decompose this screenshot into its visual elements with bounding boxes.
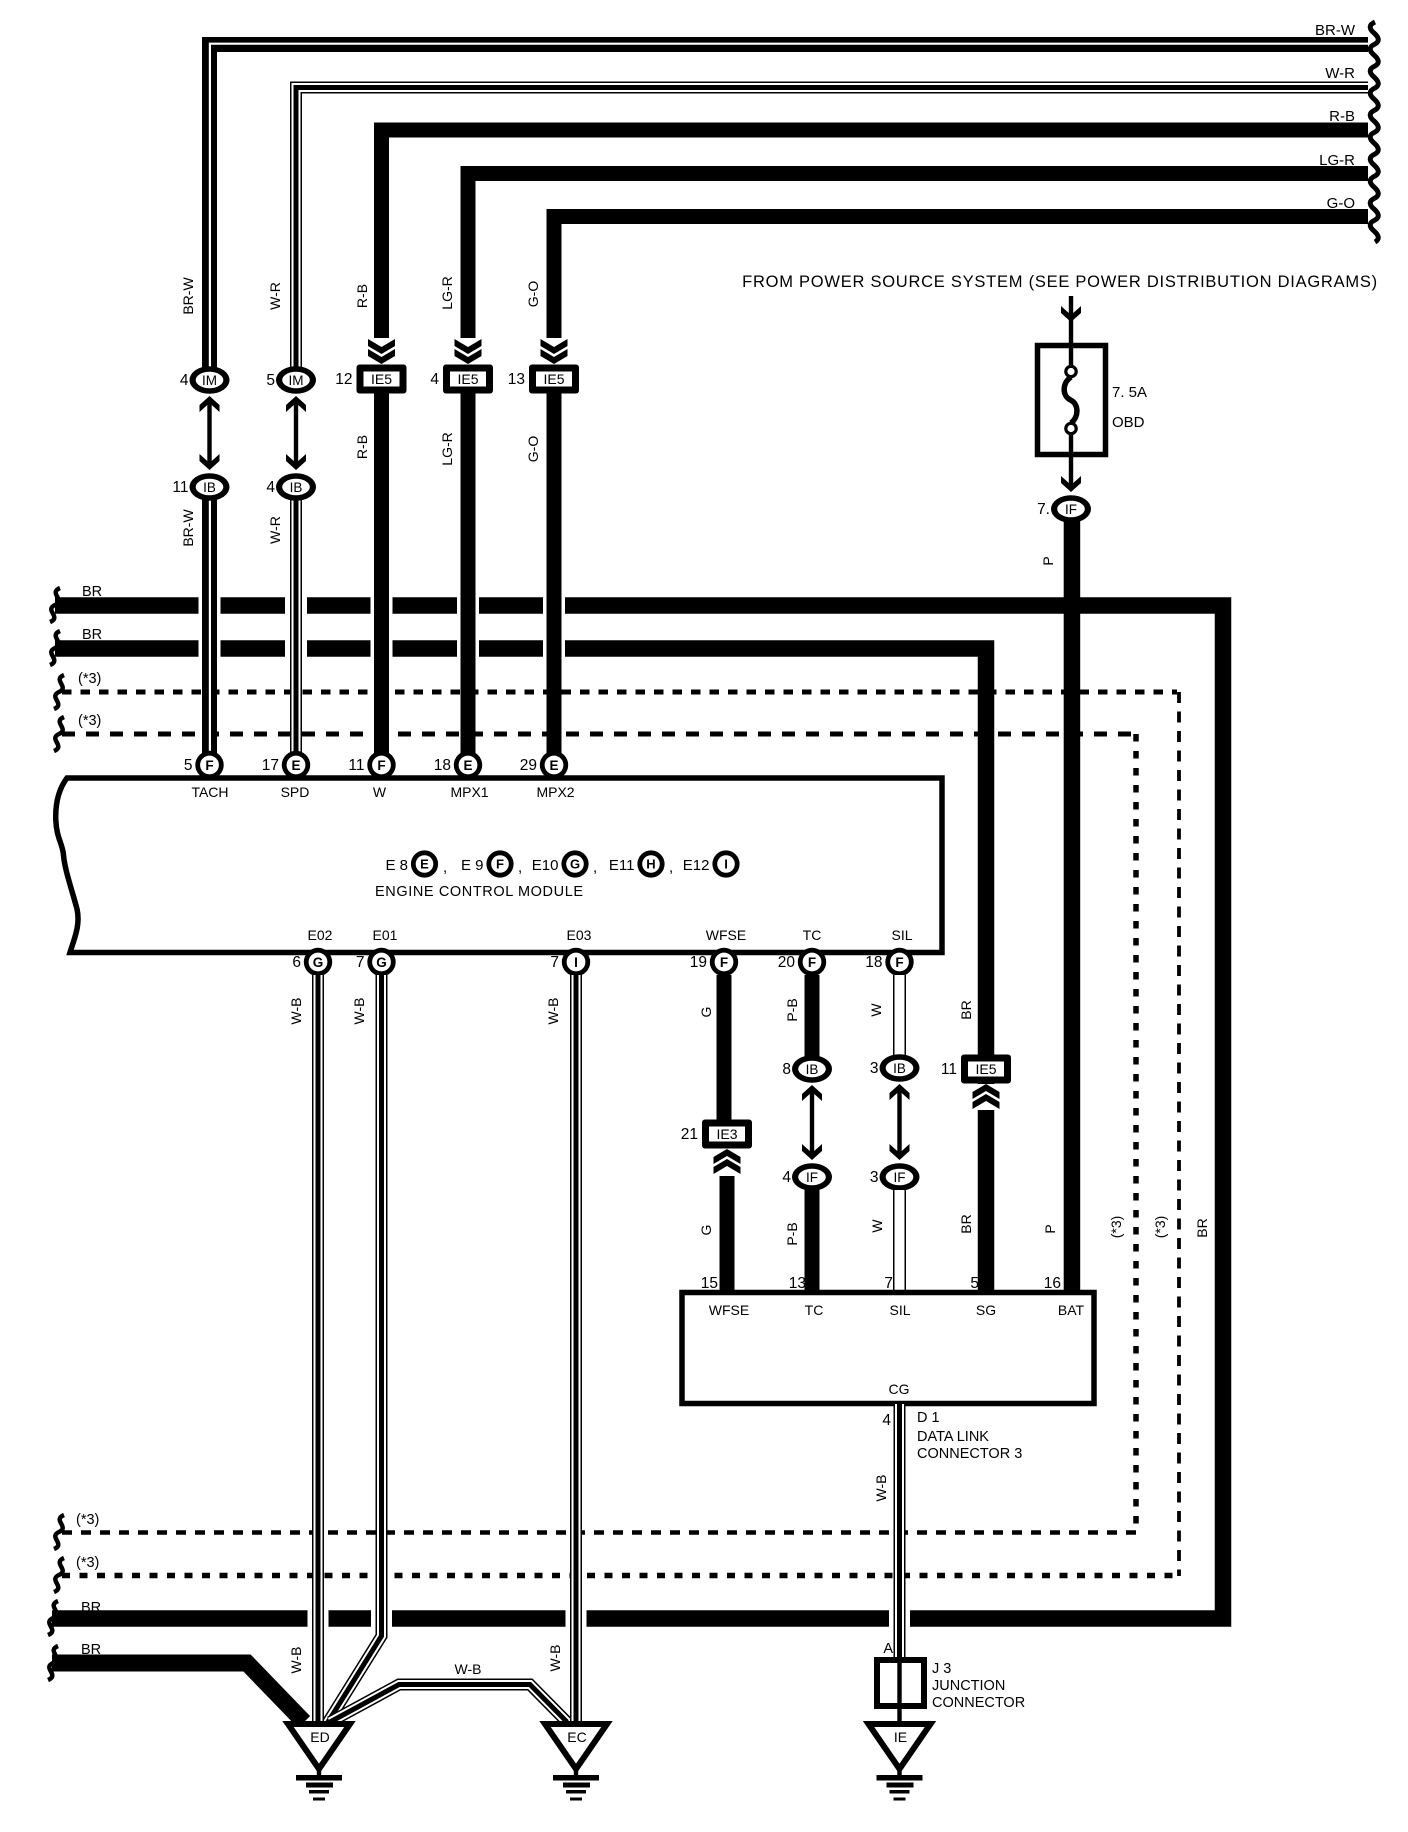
svg-text:BR-W: BR-W [180,277,196,315]
svg-text:FROM POWER SOURCE SYSTEM (SEE: FROM POWER SOURCE SYSTEM (SEE POWER DIST… [742,273,1378,291]
svg-text:18: 18 [434,757,451,774]
dashed marker line (*3) inner top [62,732,1134,737]
svg-text:F: F [895,955,903,970]
svg-text:G-O: G-O [1327,195,1355,212]
svg-text:WFSE: WFSE [706,927,746,943]
svg-text:SIL: SIL [891,927,912,943]
svg-text:18: 18 [865,954,882,971]
arrow into connector 12 IE5 [368,338,396,364]
svg-text:F: F [377,758,385,773]
wire LG-R (L-shape) [468,174,1368,357]
svg-text:F: F [808,955,816,970]
arrow into connector 4 IE5 [454,338,482,364]
ground ED [288,1724,350,1801]
svg-text:E01: E01 [373,927,398,943]
connector 11 IE5 (SG) [941,1055,1011,1084]
svg-text:13: 13 [508,371,525,388]
svg-text:E03: E03 [567,927,592,943]
break mark BR bottom 2 [48,1646,58,1680]
data link connector 3 box [682,1293,1094,1404]
wire BR-W (L-shape with white stripe) [210,44,1369,368]
svg-text:E02: E02 [308,927,333,943]
wire R-B from IE5 to ECM W pin [374,391,389,753]
pin 18 E (MPX1) [434,751,482,779]
svg-text:E: E [420,857,429,872]
svg-text:ED: ED [310,1729,329,1745]
svg-text:7: 7 [356,954,365,971]
wire BR-W from IB to ECM TACH pin [202,498,217,753]
svg-text:W-B: W-B [873,1475,889,1502]
svg-text:W-R: W-R [1325,65,1355,82]
arrow link IM to IB (col 2) [286,396,306,470]
svg-text:BAT: BAT [1058,1302,1085,1318]
svg-text:TACH: TACH [191,784,228,800]
break mark BR bottom 1 [48,1601,58,1635]
arrow into IF connector [1061,476,1081,492]
svg-text:CG: CG [889,1381,910,1397]
wire W-R from IB to ECM SPD pin [290,498,302,753]
svg-text:W-R: W-R [267,282,283,310]
svg-text:IB: IB [203,480,216,495]
svg-text:MPX1: MPX1 [450,784,488,800]
svg-text:H: H [646,857,655,872]
connector 4 IB [266,473,316,501]
svg-text:G: G [570,857,580,872]
connector 21 IE3 (WFSE) [681,1120,752,1149]
svg-text:I: I [574,955,578,970]
svg-text:J 3: J 3 [932,1661,951,1677]
wire P-B from IF to DLC3 TC [805,1190,820,1296]
svg-text:11: 11 [348,757,364,774]
svg-text:LG-R: LG-R [439,432,455,465]
pin 5 F (TACH) [184,751,224,779]
dashed marker line (*3) inner vertical [1133,734,1139,1533]
svg-text:W-B: W-B [288,998,304,1025]
svg-text:4: 4 [882,1412,891,1429]
svg-text:P-B: P-B [784,1222,800,1245]
svg-text:E12: E12 [683,857,710,874]
svg-text:7. 5A: 7. 5A [1112,384,1147,401]
svg-text:E10: E10 [532,857,559,874]
svg-text:E11: E11 [609,857,635,874]
pin 29 E (MPX2) [520,751,568,779]
svg-text:4: 4 [180,372,189,389]
svg-text:IE5: IE5 [457,371,478,387]
wire LG-R from IE5 to ECM MPX1 pin [461,391,476,753]
svg-text:G: G [698,1225,714,1236]
svg-text:11: 11 [172,479,188,496]
wire G from IE3 to DLC3 WFSE [720,1176,735,1296]
svg-text:R-B: R-B [354,435,370,459]
svg-text:BR: BR [958,1214,974,1233]
wire from power source into fuse [1069,296,1073,368]
svg-text:W-B: W-B [351,998,367,1025]
svg-text:F: F [205,758,213,773]
svg-text:W: W [869,1219,885,1233]
svg-text:F: F [496,857,504,872]
svg-text:P: P [1042,1224,1058,1233]
svg-text:TC: TC [803,927,822,943]
svg-text:BR-W: BR-W [180,509,196,547]
svg-text:F: F [720,955,728,970]
svg-text:(*3): (*3) [1152,1216,1168,1239]
svg-text:(*3): (*3) [1108,1216,1124,1239]
connector 7 IF (fuse output) [1037,495,1091,523]
pin 11 F (W) [348,751,395,779]
svg-text:LG-R: LG-R [1319,152,1355,169]
svg-text:E: E [463,758,472,773]
svg-text:IB: IB [290,480,303,495]
break mark (*3) line 3 [54,1515,64,1549]
pin 6 G (E02) [292,948,332,976]
svg-text:R-B: R-B [354,284,370,308]
wire W-B from E02 to ground ED [312,975,324,1722]
svg-text:IF: IF [894,1170,906,1185]
svg-text:4: 4 [266,479,275,496]
break mark (*3) line 4 [54,1558,64,1592]
connector 8 IB (TC) [782,1055,832,1083]
svg-text:17: 17 [262,757,279,774]
wire P from IF to DLC3 BAT pin [1064,521,1081,1296]
connector 11 IB [172,473,229,501]
svg-text:20: 20 [778,954,796,971]
pin 17 E (SPD) [262,751,310,779]
engine control module box [56,778,942,953]
svg-text:12: 12 [335,371,352,388]
svg-text:G: G [313,955,324,970]
svg-text:29: 29 [520,757,537,774]
arrow into connector 13 IE5 [540,338,568,364]
svg-text:E: E [291,758,300,773]
svg-text:5: 5 [184,757,193,774]
wire SIL W upper [893,975,906,1058]
svg-text:(*3): (*3) [76,1512,99,1528]
wire BR bottom 2 diagonal into ground ED [52,1663,304,1722]
svg-text:SG: SG [976,1302,996,1318]
connector 4 IF (TC) [782,1163,832,1191]
svg-text:IB: IB [893,1061,906,1076]
wire BR bus 2 (top) down to DLC3 SG pin [55,649,986,1297]
svg-text:W: W [868,1003,884,1017]
svg-text:,: , [669,859,673,876]
svg-text:BR: BR [958,1000,974,1019]
svg-text:CONNECTOR 3: CONNECTOR 3 [917,1446,1022,1462]
break mark BR bus 1 [50,588,60,622]
svg-text:16: 16 [1044,1275,1061,1292]
pin 19 F (WFSE) [690,948,738,976]
svg-text:EC: EC [567,1729,586,1745]
arrow out of 21 IE3 [713,1149,741,1175]
svg-text:IE3: IE3 [716,1126,737,1142]
svg-text:DATA LINK: DATA LINK [917,1429,989,1445]
pin 20 F (TC) [778,948,826,976]
svg-text:G: G [698,1007,714,1018]
svg-text:4: 4 [430,371,439,388]
dashed marker line (*3) inner bottom [62,1530,1136,1535]
connector 12 IE5 [335,365,406,394]
wire W-B from E03 to ground EC [570,975,582,1722]
svg-text:D 1: D 1 [917,1410,940,1426]
torn-edge squiggle at right wire ends [1370,22,1378,242]
connector 3 IF (SIL) [870,1163,920,1191]
svg-text:CONNECTOR: CONNECTOR [932,1695,1025,1711]
svg-text:7: 7 [884,1275,893,1292]
svg-text:IE5: IE5 [975,1061,996,1077]
svg-text:JUNCTION: JUNCTION [932,1678,1005,1694]
svg-text:IM: IM [202,373,217,388]
svg-text:W: W [373,784,387,800]
svg-text:6: 6 [292,954,301,971]
svg-text:R-B: R-B [1329,108,1355,125]
wire W-B linking ED and EC grounds [330,1685,567,1723]
dashed marker line (*3) outer vertical [1177,692,1181,1576]
svg-text:IB: IB [806,1062,819,1077]
pin 18 F (SIL) [865,948,913,976]
break mark (*3) line 1 [54,675,64,709]
svg-text:IE5: IE5 [543,371,564,387]
svg-text:IM: IM [289,373,304,388]
break mark (*3) line 2 [54,717,64,751]
wire G from WFSE pin to IE3 [717,975,732,1124]
svg-text:7: 7 [550,954,559,971]
svg-text:4: 4 [782,1169,791,1186]
svg-text:8: 8 [782,1061,791,1078]
junction connector J3 [877,1660,924,1724]
svg-text:7.: 7. [1037,501,1050,518]
fuse 7.5A OBD [1038,346,1106,455]
wire G-O from IE5 to ECM MPX2 pin [547,391,562,753]
svg-text:SIL: SIL [889,1302,910,1318]
wire fuse to IF connector [1069,433,1073,489]
wire W-B from E01 to ground ED [328,975,382,1722]
svg-text:ENGINE CONTROL MODULE: ENGINE CONTROL MODULE [375,884,584,900]
svg-text:15: 15 [701,1275,718,1292]
svg-text:W-B: W-B [547,1645,563,1672]
svg-text:11: 11 [941,1061,957,1078]
connector 4 IM [180,366,230,394]
ECM internal connector list E8-E12 [385,850,739,877]
svg-text:,: , [518,859,522,876]
svg-text:G-O: G-O [525,281,541,308]
arrow into fuse [1061,306,1081,322]
svg-text:(*3): (*3) [78,713,101,729]
svg-text:MPX2: MPX2 [536,784,574,800]
dashed marker line (*3) outer top [62,690,1177,695]
connector 5 IM [266,366,316,394]
svg-text:E 9: E 9 [461,857,484,874]
svg-text:3: 3 [870,1169,879,1186]
svg-text:13: 13 [789,1275,806,1292]
svg-text:W-R: W-R [267,516,283,544]
wire W-B from DLC3 CG to junction J3 [894,1404,906,1664]
svg-text:BR: BR [81,1600,101,1616]
ground EC [545,1724,607,1801]
connector 13 IE5 [508,365,579,394]
svg-text:LG-R: LG-R [439,276,455,309]
svg-text:W-B: W-B [545,998,561,1025]
svg-text:BR-W: BR-W [1315,22,1356,39]
svg-text:(*3): (*3) [76,1555,99,1571]
svg-text:P-B: P-B [784,998,800,1021]
svg-text:IF: IF [1065,502,1077,517]
svg-text:BR: BR [1194,1218,1210,1237]
svg-text:IE5: IE5 [371,371,392,387]
arrow link IM to IB (col 1) [200,396,220,470]
svg-text:OBD: OBD [1112,414,1145,431]
svg-text:BR: BR [82,584,102,600]
svg-text:BR: BR [82,627,102,643]
svg-text:19: 19 [690,954,707,971]
svg-text:G: G [376,955,387,970]
svg-text:A: A [883,1641,893,1657]
connector 3 IB (SIL) [870,1054,920,1082]
svg-text:5: 5 [266,372,275,389]
connector 4 IE5 (second) [430,365,493,394]
svg-text:W-B: W-B [288,1647,304,1674]
dashed marker line (*3) outer bottom [62,1573,1179,1579]
svg-text:5: 5 [970,1275,979,1292]
wire BR bus (top) to right-side vertical and bottom bus [52,606,1223,1619]
wire W from IF to DLC3 SIL [893,1190,906,1296]
wire TC P-B upper [805,975,820,1058]
wire R-B (L-shape) [382,130,1369,356]
arrow link 3 IB to 3 IF [890,1084,910,1160]
svg-text:BR: BR [81,1642,101,1658]
svg-text:TC: TC [805,1302,824,1318]
wire G-O (L-shape) [554,217,1368,357]
svg-text:SPD: SPD [281,784,310,800]
wire crossing gaps [199,597,221,615]
pin 7 I (E03) [550,948,590,976]
svg-text:G-O: G-O [525,436,541,463]
pin 7 G (E01) [356,948,396,976]
arrow link 8 IB to 4 IF [802,1085,822,1160]
svg-text:21: 21 [681,1126,698,1143]
svg-text:(*3): (*3) [78,671,101,687]
svg-text:IE: IE [894,1729,907,1745]
arrow out of 11 IE5 [972,1084,1000,1110]
svg-text:E: E [549,758,558,773]
svg-text:IF: IF [806,1170,818,1185]
svg-text:,: , [443,859,447,876]
break mark BR bus 2 [50,631,60,665]
wire W-R (L-shape) [296,88,1368,369]
svg-text:E 8: E 8 [385,857,408,874]
svg-text:P: P [1040,556,1056,565]
ground IE [869,1724,931,1801]
svg-text:3: 3 [870,1060,879,1077]
svg-text:WFSE: WFSE [709,1302,749,1318]
svg-text:W-B: W-B [455,1661,482,1677]
svg-text:,: , [593,859,597,876]
svg-text:I: I [724,857,728,872]
